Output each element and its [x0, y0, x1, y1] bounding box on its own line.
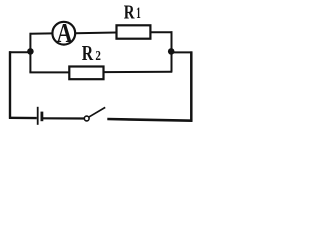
- wire R1 to right corner: [152, 31, 173, 33]
- label R2: [82, 42, 101, 66]
- label R1: [124, 0, 141, 23]
- node right junction: [168, 48, 175, 55]
- wire left rail to battery: [9, 117, 37, 120]
- svg-text:R: R: [82, 42, 94, 66]
- node left junction: [27, 48, 34, 55]
- svg-text:A: A: [57, 19, 73, 49]
- resistor R1: [117, 25, 151, 38]
- wire battery to switch: [43, 117, 85, 119]
- wire left link vertical: [29, 33, 31, 72]
- wire right link vertical: [171, 31, 173, 72]
- svg-text:1: 1: [136, 5, 141, 22]
- wire ammeter to R1: [76, 32, 117, 35]
- ammeter U1 (A): [52, 19, 75, 49]
- wire R2 branch left: [29, 71, 69, 73]
- wire left link horizontal: [9, 51, 31, 53]
- switch S1 lever: [89, 107, 106, 117]
- wire left rail: [9, 51, 11, 119]
- resistor R2: [69, 67, 103, 80]
- wire bottom rail right segment: [107, 119, 192, 121]
- battery cell long plate: [37, 107, 39, 125]
- switch S1 pivot: [84, 116, 89, 121]
- svg-text:R: R: [124, 0, 135, 23]
- wire node to right rail: [171, 51, 192, 53]
- wire top branch left segment: [30, 32, 53, 34]
- battery cell short plate: [41, 112, 44, 122]
- wire R2 branch right: [105, 71, 173, 73]
- wire right rail: [190, 51, 193, 121]
- svg-text:2: 2: [95, 48, 101, 63]
